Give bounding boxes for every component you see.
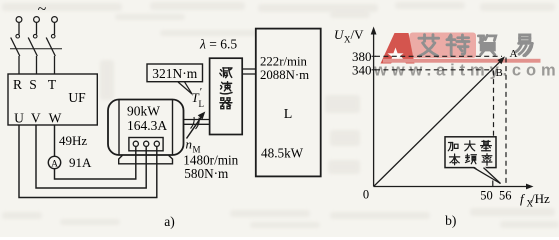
svg-text:λ = 6.5: λ = 6.5 <box>199 36 237 51</box>
svg-text:R: R <box>13 77 22 92</box>
svg-text:www.aitmy.com: www.aitmy.com <box>373 62 559 80</box>
svg-text:321N·m: 321N·m <box>152 66 197 81</box>
svg-text:a): a) <box>164 214 175 229</box>
svg-text:UF: UF <box>68 90 86 105</box>
svg-text:L: L <box>199 99 205 109</box>
svg-text:/Hz: /Hz <box>531 191 550 206</box>
svg-text:n: n <box>186 137 193 152</box>
svg-text:S: S <box>29 77 37 92</box>
svg-text:V: V <box>31 111 41 126</box>
svg-text:~: ~ <box>38 1 47 18</box>
svg-text:48.5kW: 48.5kW <box>261 146 304 161</box>
svg-text:′: ′ <box>200 86 202 98</box>
svg-text:91A: 91A <box>69 155 92 170</box>
svg-text:B: B <box>496 67 503 79</box>
svg-text:56: 56 <box>499 189 512 203</box>
svg-text:A: A <box>51 159 58 169</box>
svg-text:222r/min: 222r/min <box>260 55 308 69</box>
svg-text:W: W <box>49 111 62 126</box>
svg-text:340: 340 <box>352 63 372 78</box>
svg-text:90kW: 90kW <box>127 104 160 119</box>
svg-text:580N·m: 580N·m <box>184 166 229 181</box>
svg-text:A: A <box>510 48 518 60</box>
svg-text:b): b) <box>445 213 456 228</box>
svg-text:0: 0 <box>363 188 369 202</box>
svg-text:49Hz: 49Hz <box>59 133 87 148</box>
svg-text:50: 50 <box>480 189 493 203</box>
svg-text:/V: /V <box>351 27 365 42</box>
svg-text:2088N·m: 2088N·m <box>260 68 309 82</box>
svg-text:T: T <box>48 77 57 92</box>
svg-text:164.3A: 164.3A <box>127 118 167 133</box>
svg-text:L: L <box>284 107 293 122</box>
svg-text:U: U <box>14 111 24 126</box>
